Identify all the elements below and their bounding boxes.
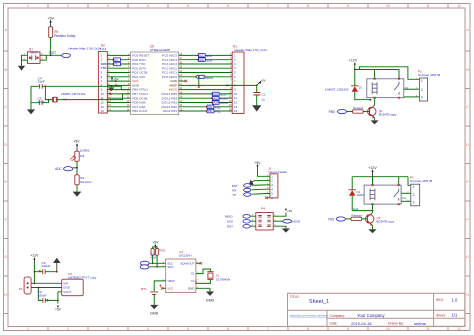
svg-text:11: 11 (426, 4, 430, 8)
resistor R1 (SCL pullup) (151, 249, 154, 256)
pin numbers U3 RTC (163, 262, 199, 289)
svg-text:PB0 CLKO: PB0 CLKO (132, 109, 148, 113)
svg-text:8: 8 (307, 327, 309, 331)
svg-text:RX: RX (114, 59, 118, 62)
wires U6 to H1 (14 rows) (179, 55, 233, 111)
junction (VIN row) (34, 282, 36, 284)
svg-text:BC547B copy: BC547B copy (377, 220, 395, 224)
wire C2 branch down (38, 288, 43, 301)
wire X1 to crystal (196, 269, 211, 274)
svg-text:7: 7 (267, 4, 269, 8)
header H2 (98, 43, 107, 113)
power flag +12V (relay 2) (368, 166, 377, 177)
relay K1 (364, 184, 406, 205)
svg-text:Sheet:: Sheet: (436, 314, 446, 318)
svg-text:Sheet_1: Sheet_1 (309, 299, 329, 305)
svg-text:ADC: ADC (55, 167, 62, 171)
svg-text:4: 4 (147, 4, 149, 8)
svg-text:123: 123 (413, 185, 415, 205)
wire GND row 7 stub (179, 80, 186, 82)
wire coil bottom to collector (relay 1) (374, 98, 376, 100)
net label PB1 (206, 109, 221, 113)
svg-text:123: 123 (421, 79, 423, 100)
border row letters (4, 28, 469, 297)
ground arrow (J1 pin2) (249, 180, 267, 186)
wire C5 row (31, 100, 49, 103)
svg-text:+12V: +12V (349, 59, 358, 63)
svg-text:GND: GND (206, 299, 215, 303)
svg-text:SQW/OUT: SQW/OUT (180, 261, 194, 265)
wire D1 to collector (relay 1) (355, 92, 371, 100)
wire VBAT to battery (154, 281, 166, 291)
junction (ADC divider) (76, 167, 78, 169)
svg-text:RST: RST (49, 51, 56, 55)
wire emitter to ground (Q1) (374, 118, 376, 121)
junction (XTAL1 row) (110, 89, 112, 91)
svg-text:Terminal_3P/5.08: Terminal_3P/5.08 (418, 73, 441, 77)
ground (crystal circuit) (27, 109, 35, 114)
svg-text:GND: GND (132, 84, 140, 88)
battery BT1 (141, 285, 162, 295)
svg-text:8: 8 (307, 4, 309, 8)
wire VCC stub (RTC) (162, 287, 166, 289)
svg-text:G: G (4, 255, 7, 259)
terminal P3 (416, 70, 441, 101)
svg-text:F: F (5, 218, 7, 222)
wire P4 GND row (273, 226, 286, 228)
svg-text:REV:: REV: (436, 298, 444, 302)
diode D1 (325, 86, 363, 92)
svg-text:R3: R3 (80, 154, 84, 158)
svg-text:+5V: +5V (287, 209, 292, 213)
junction (R0/RST) (50, 54, 52, 56)
wire R8 to base (362, 218, 368, 220)
junction (+5V node) (57, 300, 59, 302)
svg-text:RST: RST (227, 224, 233, 228)
svg-text:1.0: 1.0 (452, 297, 458, 302)
resistor R4 (75, 175, 92, 185)
junction (XTAL2 row) (110, 93, 112, 95)
wire LDR to R4 (76, 161, 78, 175)
svg-text:X1: X1 (191, 272, 195, 276)
wire D2 to collector (relay 2) (352, 196, 372, 211)
net label ADC0 (196, 75, 214, 80)
net port MISO (P4) (225, 214, 250, 218)
junction (AREF/H1) (226, 85, 228, 87)
svg-text:PB0: PB0 (329, 110, 335, 114)
svg-text:SDA: SDA (199, 59, 204, 62)
svg-text:100uF: 100uF (38, 293, 47, 297)
net port TX (J1) (232, 193, 266, 197)
power flag +5V (R0 top) (47, 17, 54, 27)
svg-text:100uF: 100uF (42, 264, 51, 268)
wire collector drop (Q2) (372, 211, 374, 213)
net port RST (49, 51, 70, 58)
power flag +5V (LDR) (73, 140, 80, 152)
svg-text:+5V: +5V (152, 241, 159, 245)
net label TX box (112, 62, 120, 66)
junction (SDA pullup) (156, 266, 158, 268)
net label PB2 (206, 105, 221, 109)
svg-text:SDA: SDA (206, 59, 213, 63)
wire top loop (relay 2) (352, 177, 411, 186)
power flag +5V (P4) (285, 208, 292, 213)
svg-text:X2: X2 (191, 279, 195, 283)
svg-text:2: 2 (67, 327, 69, 331)
svg-text:1/1: 1/1 (452, 313, 458, 318)
svg-text:1: 1 (27, 327, 29, 331)
wire +5V to J1 pin1 (258, 168, 267, 176)
pin numbers J1 (267, 175, 269, 199)
wire diode drop (relay 2) (351, 177, 353, 190)
svg-text:P1: P1 (19, 287, 23, 291)
wire VOUT row (58, 291, 62, 293)
svg-text:F: F (466, 218, 468, 222)
svg-text:DIG9 PB1: DIG9 PB1 (163, 109, 177, 113)
RTC U3 (DS1307) (166, 250, 196, 293)
junction (collector relay 1) (370, 99, 372, 101)
svg-text:switch: switch (30, 51, 39, 55)
transistor Q1 (368, 105, 397, 118)
net label MOSI (211, 101, 228, 105)
svg-text:Company:: Company: (330, 314, 346, 318)
wire R4 to ground (76, 185, 78, 192)
net label SDA (197, 58, 213, 63)
wire P1 pin2 to GND pin (31, 287, 62, 289)
power flag +12V (relay 1) (349, 59, 358, 67)
svg-text:12: 12 (457, 327, 461, 331)
no-connect X (RTC VCC) (161, 287, 164, 290)
power flag +5V (J1) (254, 161, 261, 168)
net label RX box (112, 58, 120, 62)
wire S1 left pins to ground (22, 55, 28, 66)
power flag +12V (supply) (30, 254, 39, 262)
net port PB1 (relay 2) (328, 217, 351, 221)
svg-text:D2: D2 (357, 190, 361, 194)
net port RX (J1) (232, 188, 266, 192)
svg-text:TX: TX (232, 193, 236, 197)
svg-text:LDR03: LDR03 (80, 148, 90, 152)
wire P4 VCC row (273, 213, 286, 217)
junction (relay 2 rail) (372, 176, 374, 178)
diode D2 (348, 190, 366, 197)
net port PB0 (329, 110, 353, 114)
svg-text:12: 12 (457, 4, 461, 8)
wire P4 MOSI row (273, 220, 282, 222)
wire X2 to crystal (196, 280, 211, 284)
ground (battery) (150, 305, 159, 316)
svg-text:K1: K1 (402, 196, 406, 200)
svg-text:9: 9 (347, 4, 349, 8)
svg-text:1N4007_C301633: 1N4007_C301633 (325, 87, 349, 91)
svg-text:SCL: SCL (199, 55, 204, 58)
wire J1 pin stubs (266, 176, 270, 198)
wire outer loop to P3 pin1 (359, 67, 419, 80)
svg-text:LM7805Q-TF3-T copy: LM7805Q-TF3-T copy (68, 276, 97, 280)
net label SCK (211, 92, 227, 96)
capacitor C2 (38, 290, 49, 303)
svg-text:C1: C1 (262, 92, 266, 96)
svg-text:10: 10 (386, 4, 390, 8)
junction (C5/XTAL2) (48, 99, 50, 101)
wire C6 up-arrow stem (56, 263, 58, 272)
svg-text:Terminal_3P/5.08: Terminal_3P/5.08 (410, 179, 433, 183)
net port RST (P4) (227, 224, 250, 228)
resistor R0 (49, 27, 76, 38)
wire contact to P2 pin2 (401, 192, 411, 194)
border ticks left (4, 51, 9, 314)
wire ground bus (crystal) (30, 86, 32, 109)
net port SCL (RTC) (140, 252, 165, 265)
wire P1 pin1 to VIN (31, 282, 62, 284)
svg-text:PB1: PB1 (215, 110, 221, 114)
svg-text:G: G (466, 255, 469, 259)
svg-text:PB2: PB2 (208, 106, 213, 109)
svg-text:+5V: +5V (254, 161, 261, 165)
svg-text:GND: GND (150, 312, 159, 316)
pin numbers U6 left side (127, 54, 130, 112)
svg-text:4: 4 (147, 327, 149, 331)
crystal Y1 (53, 92, 86, 102)
svg-text:TX: TX (102, 66, 106, 70)
svg-text:GND: GND (188, 286, 196, 290)
wires H2 to U6 (14 rows) (107, 55, 130, 111)
terminal P2 (407, 175, 432, 205)
pin numbers H1 left side (229, 54, 232, 112)
no-connect X (SQW/OUT) (200, 262, 203, 265)
photoresistor R3 (LDR03) (70, 148, 90, 161)
svg-text:R1R2: R1R2 (160, 250, 167, 253)
ground (Q1) (371, 120, 379, 124)
net port SCK (P4) (227, 219, 250, 223)
wire XTAL2 net (crystal right to U6 PB7) (57, 94, 131, 100)
svg-text:TITLE:: TITLE: (290, 295, 300, 299)
crystal X1 (32.768KHz) (207, 272, 230, 282)
ground (Q2) (368, 229, 376, 233)
power arrow (C6 node) (53, 258, 61, 263)
wire S1 right pins to RST (40, 55, 62, 60)
junction (C1 top) (256, 85, 258, 87)
svg-text:9: 9 (347, 327, 349, 331)
voltage regulator U5 (62, 272, 97, 296)
svg-text:Drawn By:: Drawn By: (388, 322, 404, 326)
svg-text:sekhar: sekhar (414, 321, 427, 326)
pin numbers U6 right side (180, 54, 183, 112)
wire crystal left leg (45, 86, 52, 99)
power flag +5V (C1) (257, 79, 266, 86)
svg-text:5: 5 (187, 327, 189, 331)
svg-text:Resistor: Resistor (353, 106, 364, 110)
wire emitter to ground (Q2) (372, 225, 374, 229)
wire coil bottom to collector (relay 2) (372, 204, 374, 211)
svg-text:6: 6 (227, 327, 229, 331)
wire pullups to bus (153, 247, 158, 267)
capacitor C5 (38, 97, 45, 105)
svg-text:PB1: PB1 (328, 217, 334, 221)
svg-text:BC547B copy: BC547B copy (379, 112, 397, 116)
relay K2 (367, 78, 409, 99)
no-connect X (J1 pin6) (265, 197, 268, 200)
junction (SCL pullup) (152, 262, 154, 264)
svg-text:Resistor: Resistor (352, 213, 363, 217)
wire contact to P3 pin3 (404, 96, 420, 98)
net label SCL (197, 54, 212, 59)
no-connect X (ADC0 drop) (198, 85, 201, 88)
resistor R2 (SDA pullup) (156, 249, 167, 256)
svg-text:+5V: +5V (55, 307, 62, 311)
header P4 (ISP 2x3) (256, 207, 273, 231)
svg-text:Header-Male 2.54_1x14: Header-Male 2.54_1x14 (69, 47, 102, 51)
ground (P4) (282, 229, 290, 233)
svg-text:1x14: 1x14 (100, 47, 107, 51)
svg-text:P4: P4 (261, 207, 265, 211)
net port ADC (55, 167, 77, 171)
pin numbers H2 right side (108, 54, 111, 112)
svg-text:+5V: +5V (73, 140, 80, 144)
svg-text:DS1307+: DS1307+ (179, 254, 192, 258)
ground (GND row U6) (109, 84, 118, 91)
svg-text:+12V: +12V (368, 166, 377, 170)
svg-text:3: 3 (107, 4, 109, 8)
wire contact to P2 pin3 (401, 200, 411, 202)
wire P4 left stubs (251, 216, 256, 226)
net port SDA (RTC) (140, 256, 165, 269)
svg-text:Net1: Net1 (353, 208, 359, 211)
power flag +5V (RTC pullups) (152, 241, 159, 249)
wire GND pin (RTC) (196, 288, 210, 291)
net port RST (J1) (232, 184, 267, 188)
svg-text:SCK: SCK (227, 219, 233, 223)
svg-text:RST: RST (232, 184, 238, 188)
svg-text:MOSI: MOSI (293, 220, 301, 224)
junction (relay 1 rail) (354, 69, 356, 71)
svg-text:Resistor Today: Resistor Today (54, 34, 75, 38)
svg-text:AVCC: AVCC (169, 88, 178, 92)
svg-text:7: 7 (267, 327, 269, 331)
svg-text:Resistor: Resistor (80, 180, 91, 184)
svg-text:2: 2 (67, 4, 69, 8)
svg-text:TX: TX (114, 63, 117, 66)
svg-text:2019-04-18: 2019-04-18 (351, 321, 372, 326)
svg-text:ATMEGA328P: ATMEGA328P (150, 48, 170, 52)
svg-text:+12V: +12V (30, 254, 39, 258)
border ticks top (48, 4, 448, 9)
svg-text:D1: D1 (359, 86, 363, 90)
wire contact to P3 pin2 (404, 88, 420, 90)
wire C2 to +5V node (45, 292, 58, 301)
svg-text:SCK: SCK (213, 93, 218, 96)
svg-text:10: 10 (386, 327, 390, 331)
wire R7 to base (363, 111, 369, 113)
svg-text:SDA: SDA (150, 256, 156, 260)
svg-text:VBAT: VBAT (167, 279, 175, 283)
svg-text:3: 3 (107, 327, 109, 331)
wire coil/contact top loop (relay 1) (355, 70, 399, 79)
svg-text:VOUT: VOUT (63, 290, 72, 294)
svg-text:6: 6 (227, 4, 229, 8)
wire left bus to C4 (31, 85, 40, 87)
svg-text:22pF: 22pF (38, 80, 45, 84)
ground GND (RTC) (206, 292, 215, 303)
svg-text:MISO: MISO (225, 214, 233, 218)
wire collector drop (Q1) (374, 100, 376, 106)
svg-text:Date:: Date: (330, 322, 338, 326)
title block frame (288, 293, 465, 326)
wire XTAL1 net (C4 right to U6 PB6) (42, 86, 130, 89)
svg-text:1: 1 (27, 4, 29, 8)
svg-text:1u: 1u (262, 98, 266, 102)
resistor R8 (base relay 2) (351, 213, 362, 220)
junction (C6 right) (56, 271, 58, 273)
ground (under S1) (18, 66, 25, 71)
svg-text:BT1: BT1 (141, 287, 147, 291)
svg-text:Your Company: Your Company (357, 313, 385, 318)
ground (LDR divider) (73, 192, 82, 197)
connector P1 (19, 277, 31, 294)
power flag +5V (regulator out) (55, 300, 62, 311)
ground (C1) (252, 105, 261, 111)
resistor R7 (base relay 1) (353, 106, 364, 113)
svg-text:MOSI: MOSI (220, 101, 228, 105)
wire +12V rail (supply) (33, 262, 35, 283)
capacitor C6 (39, 261, 51, 274)
svg-text:MISO: MISO (213, 98, 219, 100)
svg-text:16MHz CRYSTAL: 16MHz CRYSTAL (61, 92, 86, 96)
wire AREF row to C1 (227, 84, 257, 86)
switch S1 (24, 47, 44, 63)
net label MISO (211, 97, 228, 101)
junction (collector relay 2) (372, 210, 374, 212)
svg-text:VCC: VCC (167, 286, 174, 290)
wire C6 row (34, 271, 56, 273)
svg-text:1x6 pin header: 1x6 pin header (268, 170, 287, 174)
svg-text:MOSI: MOSI (213, 103, 219, 105)
wire R0 to RST net (50, 37, 52, 55)
junction (C4/crystal) (45, 85, 47, 87)
svg-text:+5V: +5V (261, 79, 266, 83)
svg-text:Header-Male 2.54_1x14: Header-Male 2.54_1x14 (235, 48, 268, 52)
capacitor C4 (38, 76, 45, 88)
transistor Q2 (366, 213, 395, 226)
junction (C6 left) (34, 271, 36, 273)
border ticks bottom (48, 327, 448, 331)
op-amp U6 (ATMEGA328P MCU) (131, 44, 179, 114)
svg-text:easyeda.com/sekhar_ks/sheet: easyeda.com/sekhar_ks/sheet (290, 314, 328, 318)
svg-text:ADC0: ADC0 (205, 76, 214, 80)
header H1 (232, 45, 244, 114)
svg-text:5: 5 (187, 4, 189, 8)
capacitor C1 (253, 85, 265, 105)
junction (C2 branch) (37, 287, 39, 289)
svg-text:SDA: SDA (167, 265, 173, 269)
border ticks right (465, 51, 470, 314)
wire +12V rail (relay 1) (354, 67, 356, 86)
svg-text:32.768KHz: 32.768KHz (216, 277, 231, 281)
svg-text:22pF: 22pF (38, 100, 45, 104)
power flag +5V (VCC row) (111, 76, 119, 82)
wire battery to ground (153, 295, 155, 305)
pin numbers P4 (252, 215, 277, 227)
svg-text:PB1: PB1 (208, 110, 213, 113)
svg-text:RX: RX (232, 189, 236, 193)
wire SQW/OUT stub (196, 262, 201, 264)
net port MOSI (P4) (283, 219, 301, 223)
header J1 (268, 166, 287, 200)
wire ADC0 drop (198, 77, 200, 87)
svg-text:+5V: +5V (47, 17, 54, 21)
no-connect X (GND row) (185, 80, 188, 83)
svg-text:11: 11 (426, 327, 430, 331)
